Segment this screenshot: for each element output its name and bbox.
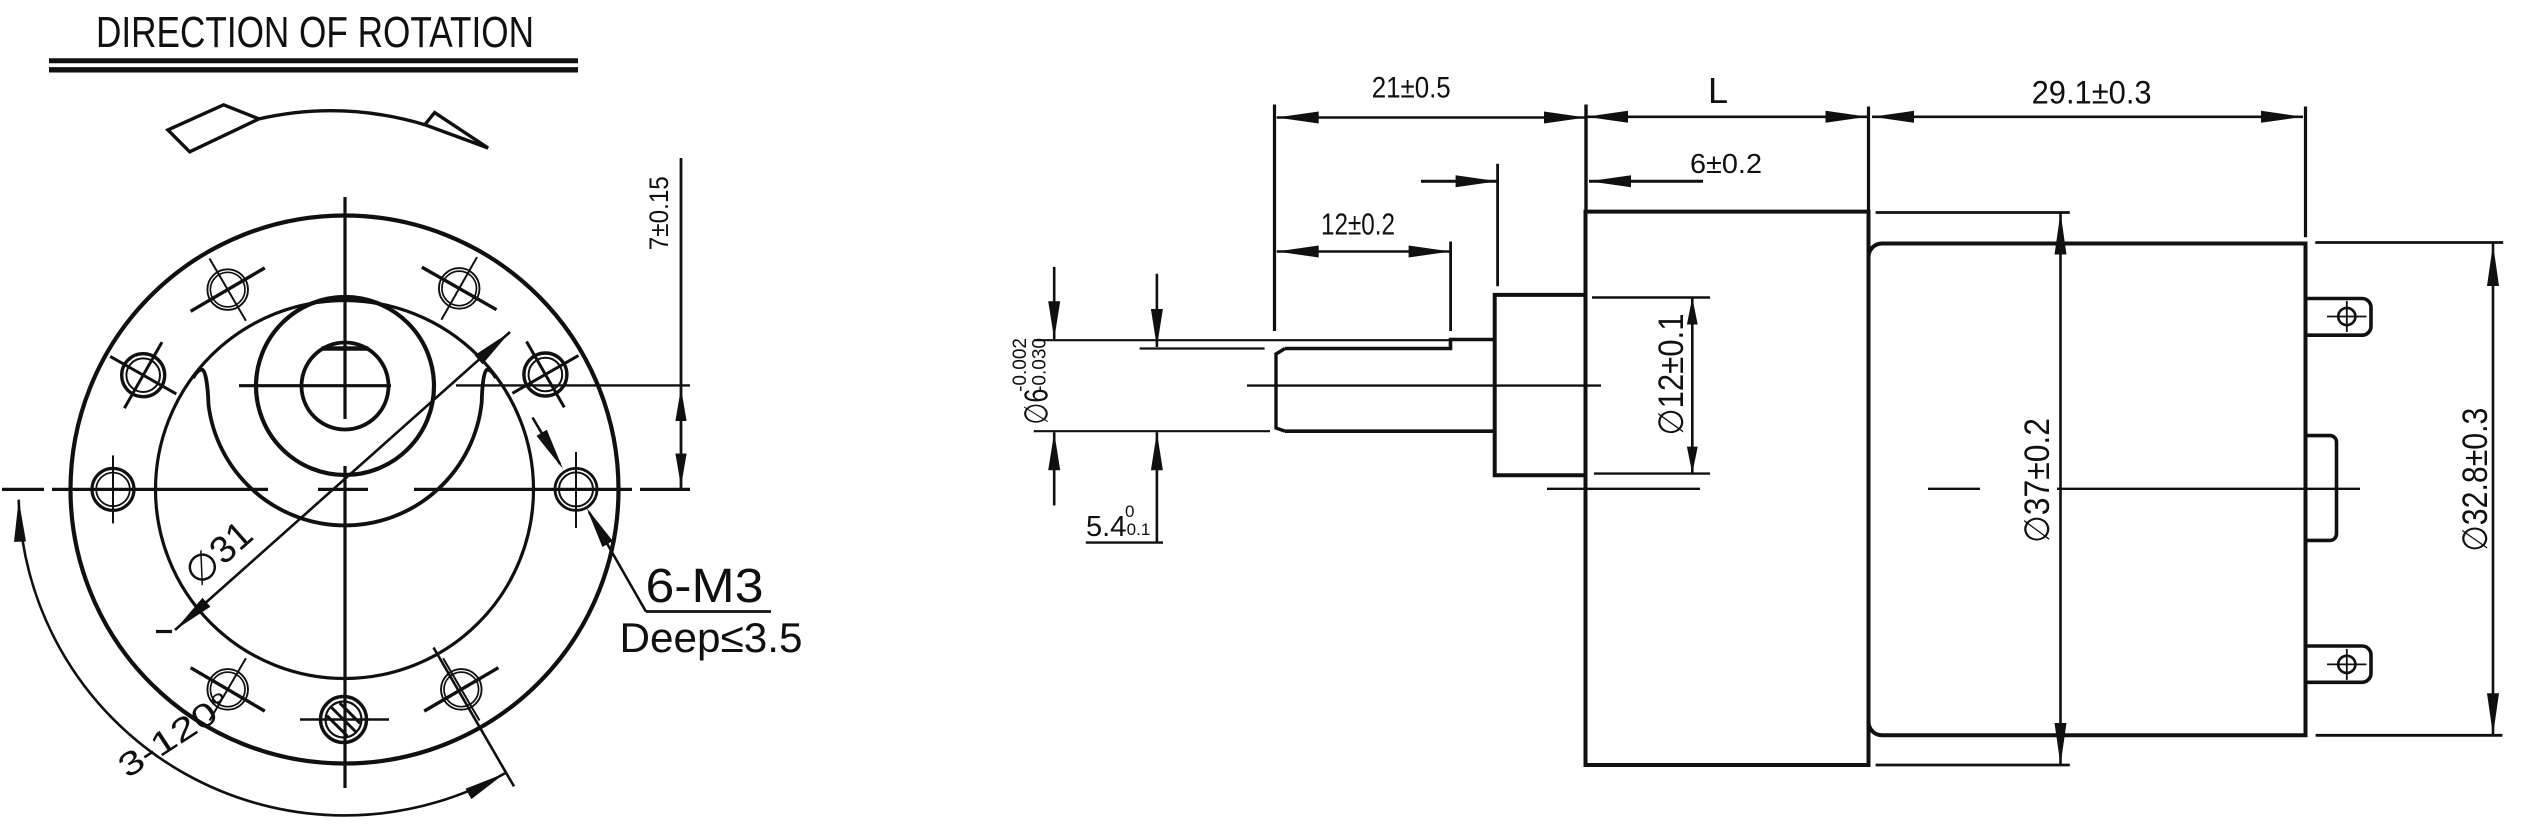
dimension 12±0.2 [1277,207,1451,258]
radial line through 300° hole [434,648,515,787]
extension line motor rear upper [2304,107,2307,238]
rotation arrow right triangle head [425,113,488,148]
extension line shaft tip vertical [1273,105,1276,332]
rotation direction curved arrow arc [259,111,425,125]
Ø31 bolt-circle dimension line [156,332,510,632]
bearing boss rectangle Ø12 [1495,295,1586,475]
motor body outline [1869,244,2306,736]
dimension L [1586,70,1868,123]
extension line gearbox rear upper [1867,107,1870,212]
svg-text:6±0.2: 6±0.2 [1690,148,1762,179]
extension line gearbox face upper [1584,105,1587,212]
svg-text:∅32.8±0.3: ∅32.8±0.3 [2456,408,2495,552]
dimension Ø6 -0.002/-0.030 [1010,267,1060,506]
plate horizontal centerline [2,488,690,491]
title DIRECTION OF ROTATION [96,8,534,57]
output shaft silhouette with D-flat [1276,340,1495,432]
second leader arrow to hole at 0° [533,418,564,470]
svg-text:∅12±0.1: ∅12±0.1 [1652,314,1691,436]
svg-text:12±0.2: 12±0.2 [1321,207,1395,242]
hole at 270° (bold M3, hatched) [300,697,389,743]
shaft D-flat chord [322,346,369,351]
dimension Ø12±0.1 [1652,298,1698,474]
extension line Ø6 top [1034,339,1450,341]
shaft hole circle Ø6 [302,343,389,430]
extension line Ø32.8 top [2315,241,2503,244]
lower terminal tab [2306,646,2372,682]
extension line Ø32.8 bottom [2316,734,2503,737]
extension line Ø12 bottom [1594,472,1710,474]
extension line Ø6 bottom [1034,430,1270,432]
extension line Ø12 top [1592,296,1710,298]
bearing boss circle Ø12 [256,297,434,475]
svg-text:DIRECTION OF ROTATION: DIRECTION OF ROTATION [96,8,534,57]
svg-text:29.1±0.3: 29.1±0.3 [2032,75,2152,111]
hole at 240° (light, M3 alt position) [191,658,265,720]
dimension 21±0.5 [1277,72,1586,124]
extension line 5.4 flat level [1140,347,1265,349]
dimension 6±0.2 [1421,148,1762,187]
hole at 180° (M3 on centerline) [92,455,134,523]
svg-text:-0.1: -0.1 [1121,520,1150,539]
svg-text:∅37±0.2: ∅37±0.2 [2018,418,2057,543]
dimension 5.4 0/-0.1 [1086,274,1163,543]
6-M3 label with underline [646,560,772,613]
hole at 0° (6-M3 target hole) [555,452,597,528]
7±0.15 dimension line [675,158,686,488]
hole at 120° (light, M3 alt position) [191,259,265,321]
svg-text:Deep≤3.5: Deep≤3.5 [620,614,803,661]
dimension Ø37±0.2 [2018,213,2067,766]
6-M3 leader arrow to hole [587,508,646,612]
upper terminal tab [2306,299,2372,336]
3-120° dimension text [111,684,239,785]
extension line flat end vertical [1449,242,1452,332]
Ø31 dimension text [177,513,261,594]
hole at 300° (light, M3 alt position) [424,658,498,720]
extension line boss front vertical [1496,164,1499,287]
svg-text:L: L [1708,70,1728,111]
dimension Ø32.8±0.3 [2456,243,2499,736]
rear center bump [2306,436,2337,541]
extension line shaft level for 7 dimension [456,384,690,386]
svg-text:21±0.5: 21±0.5 [1372,72,1451,105]
hole at 60° (light, M3 alt position) [422,257,497,320]
7±0.15 dimension text [644,176,674,250]
svg-text:∅6: ∅6 [1017,389,1054,425]
hole at 150° (bold M3) [110,342,176,408]
shaft horizontal crosshair line [239,384,391,387]
dimension 29.1±0.3 [1872,75,2303,123]
3-120° angular dimension arc [14,500,505,816]
ring circle (crescent outer boundary) [156,301,534,679]
svg-text:-0.002: -0.002 [1010,338,1031,392]
extension line Ø37 top [1876,211,2070,214]
shaft axis centerline [1247,384,1601,386]
svg-text:-0.030: -0.030 [1029,338,1050,392]
gearbox housing rectangle [1586,212,1869,765]
rotation arrow left parallelogram head [168,105,259,152]
svg-text:6-M3: 6-M3 [646,560,764,613]
svg-text:0: 0 [1125,502,1134,521]
extension line Ø37 bottom [1876,764,2070,767]
title underline double rule [49,61,578,70]
gearbox/motor axis centerline [1547,488,2360,490]
crescent cutout inner edge with horn tips [193,370,496,526]
svg-text:7±0.15: 7±0.15 [644,176,674,250]
hole at 30° (bold M3) [512,342,578,408]
plate vertical centerline [343,197,346,788]
Deep<=3.5 label [620,614,803,661]
plate outer circle Ø37 [71,216,619,764]
